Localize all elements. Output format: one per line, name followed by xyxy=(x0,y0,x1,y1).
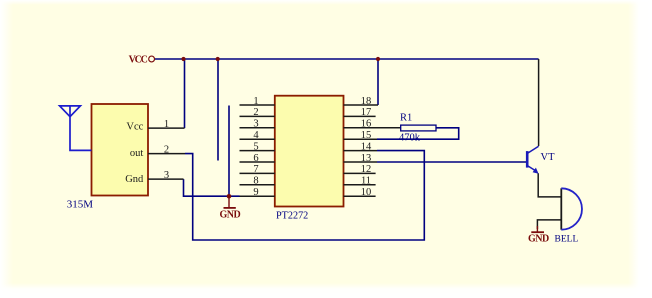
svg-text:3: 3 xyxy=(164,170,169,181)
svg-text:GND: GND xyxy=(528,234,549,245)
svg-text:5: 5 xyxy=(253,141,258,152)
svg-text:8: 8 xyxy=(253,176,258,187)
svg-text:2: 2 xyxy=(164,144,169,155)
svg-text:VCC: VCC xyxy=(129,54,148,65)
svg-text:2: 2 xyxy=(253,107,258,118)
svg-text:10: 10 xyxy=(361,187,372,198)
svg-text:9: 9 xyxy=(253,187,258,198)
svg-text:4: 4 xyxy=(253,130,259,141)
svg-text:15: 15 xyxy=(361,130,372,141)
svg-text:18: 18 xyxy=(361,96,372,107)
svg-text:PT2272: PT2272 xyxy=(276,210,308,221)
svg-text:Gnd: Gnd xyxy=(125,174,144,185)
svg-text:470k: 470k xyxy=(399,133,421,144)
svg-text:14: 14 xyxy=(361,141,372,152)
svg-text:Vcc: Vcc xyxy=(126,121,143,132)
svg-text:12: 12 xyxy=(361,164,372,175)
svg-text:GND: GND xyxy=(220,209,241,220)
svg-text:16: 16 xyxy=(361,119,372,130)
svg-text:7: 7 xyxy=(253,164,258,175)
svg-text:VT: VT xyxy=(541,152,556,163)
svg-text:1: 1 xyxy=(253,96,258,107)
svg-text:17: 17 xyxy=(361,107,372,118)
svg-text:BELL: BELL xyxy=(555,235,579,245)
svg-text:3: 3 xyxy=(253,119,258,130)
svg-text:1: 1 xyxy=(164,119,169,130)
svg-text:R1: R1 xyxy=(400,112,412,123)
svg-text:11: 11 xyxy=(361,176,371,187)
svg-text:13: 13 xyxy=(361,153,372,164)
svg-text:315M: 315M xyxy=(67,199,94,211)
svg-text:6: 6 xyxy=(253,153,258,164)
svg-text:out: out xyxy=(130,148,144,159)
